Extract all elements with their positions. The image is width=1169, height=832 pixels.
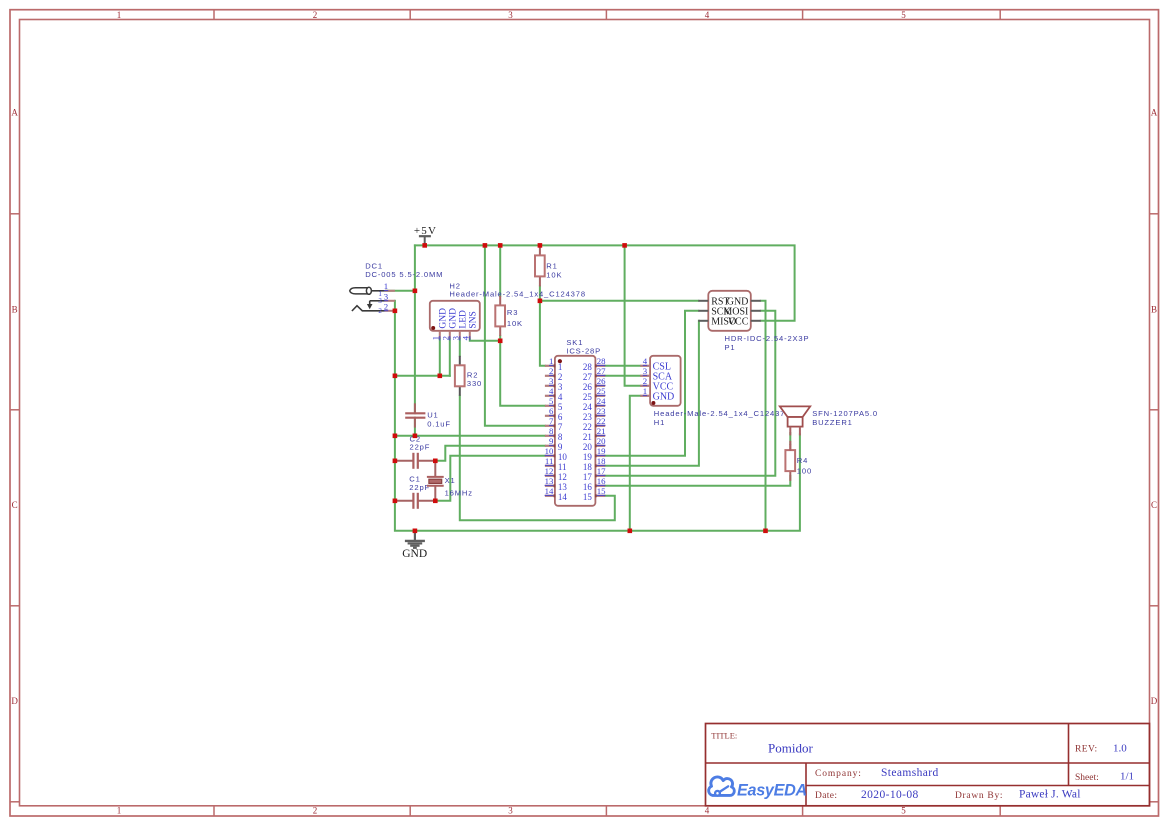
svg-text:Steamshard: Steamshard (881, 767, 939, 779)
title block (706, 724, 1150, 806)
svg-text:1: 1 (430, 336, 440, 340)
header H1 Header-Male-2.54_1x4_C124378 (640, 356, 790, 427)
wire +5V to H1 VCC (625, 245, 641, 385)
wire +5V to R3 top (499, 245, 501, 296)
svg-text:1/1: 1/1 (1120, 771, 1134, 783)
IC socket SK1 ICS-28P (545, 338, 606, 506)
svg-text:6: 6 (549, 406, 554, 416)
svg-text:SFN-1207PA5.0: SFN-1207PA5.0 (812, 409, 878, 418)
resistor R4 100 (785, 441, 812, 481)
svg-text:1: 1 (558, 362, 563, 372)
svg-text:C: C (1151, 500, 1157, 510)
wire R2 bottom to SK1 pin15 (460, 396, 615, 521)
svg-text:12: 12 (545, 466, 554, 476)
svg-text:15: 15 (597, 486, 606, 496)
svg-text:21: 21 (597, 426, 606, 436)
junction dots (393, 243, 768, 533)
svg-text:2: 2 (643, 376, 647, 386)
svg-text:2: 2 (440, 336, 450, 340)
wire H2 GND pins row (395, 375, 450, 377)
svg-text:3: 3 (643, 366, 648, 376)
svg-text:20: 20 (583, 442, 593, 452)
capacitor C1 22pF (395, 475, 435, 509)
svg-text:16: 16 (597, 476, 606, 486)
svg-text:7: 7 (549, 416, 554, 426)
wire P1 GND pin to bottom bus (761, 301, 766, 531)
svg-text:HDR-IDC-2.54-2X3P: HDR-IDC-2.54-2X3P (725, 334, 810, 343)
wire SCK net P1 to SK1 pin19 (605, 311, 698, 456)
svg-text:10: 10 (545, 446, 554, 456)
power flag +5V (414, 225, 437, 246)
wire H1 GND to bottom bus (630, 396, 641, 531)
svg-text:1: 1 (384, 281, 388, 291)
svg-text:GND: GND (653, 392, 675, 403)
svg-text:27: 27 (597, 366, 606, 376)
svg-text:23: 23 (597, 406, 606, 416)
svg-text:10K: 10K (546, 271, 562, 280)
svg-text:26: 26 (583, 382, 593, 392)
svg-text:3: 3 (558, 382, 563, 392)
header H2 Header-Male-2.54_1x4_C124378 (430, 281, 586, 340)
svg-text:DC-005 5.5-2.0MM: DC-005 5.5-2.0MM (365, 270, 443, 279)
svg-text:13: 13 (545, 476, 554, 486)
svg-text:REV:: REV: (1075, 745, 1098, 755)
svg-text:28: 28 (583, 362, 593, 372)
svg-text:1.0: 1.0 (1113, 743, 1127, 755)
wire C2/X1 to SK1 pin9 (435, 446, 545, 461)
wire MISO net P1 to SK1 pin18 (605, 321, 699, 466)
wire R1 bottom to SK1 pin1 (540, 286, 545, 365)
EasyEDA logo (709, 777, 807, 799)
svg-text:3: 3 (549, 376, 554, 386)
wire GND row to SK1 pin8 (395, 435, 545, 437)
svg-text:A: A (1151, 108, 1158, 118)
svg-text:H1: H1 (654, 418, 665, 427)
wire RST net P1 to R1 node (540, 300, 698, 302)
connector DC1 DC-005 barrel jack (350, 261, 444, 315)
svg-text:25: 25 (583, 392, 593, 402)
svg-text:100: 100 (797, 467, 812, 476)
svg-text:18: 18 (583, 462, 593, 472)
svg-text:R1: R1 (546, 261, 557, 270)
svg-text:5: 5 (901, 10, 906, 20)
svg-text:1: 1 (549, 356, 553, 366)
svg-text:15: 15 (583, 492, 593, 502)
svg-text:19: 19 (597, 446, 606, 456)
svg-text:Company:: Company: (815, 769, 862, 779)
svg-text:1: 1 (643, 386, 647, 396)
svg-text:Pomidor: Pomidor (768, 741, 813, 756)
svg-text:10K: 10K (507, 319, 523, 328)
svg-text:R4: R4 (797, 456, 808, 465)
wire C1/X1 to SK1 pin10 (435, 456, 545, 501)
svg-text:8: 8 (558, 432, 563, 442)
wire MOSI net P1 to SK1 pin17 (605, 311, 775, 476)
svg-text:D: D (1151, 696, 1158, 706)
svg-text:10: 10 (558, 452, 568, 462)
wire +5V left drop to U1 top (414, 245, 416, 413)
svg-text:6: 6 (558, 412, 563, 422)
svg-text:22pF: 22pF (409, 483, 430, 492)
svg-text:24: 24 (597, 396, 606, 406)
svg-text:P1: P1 (725, 343, 736, 352)
svg-text:22pF: 22pF (410, 442, 431, 451)
resistor R2 330 (455, 356, 482, 396)
svg-text:TITLE:: TITLE: (711, 730, 737, 740)
svg-text:4: 4 (643, 356, 648, 366)
svg-text:22: 22 (583, 422, 592, 432)
svg-text:U1: U1 (427, 411, 438, 420)
svg-text:GND: GND (402, 548, 427, 560)
svg-text:21: 21 (583, 432, 592, 442)
svg-text:2: 2 (313, 806, 318, 816)
svg-text:26: 26 (597, 376, 606, 386)
svg-text:13: 13 (558, 482, 568, 492)
svg-text:VCC: VCC (728, 317, 749, 328)
svg-text:3: 3 (508, 10, 513, 20)
svg-text:8: 8 (549, 426, 554, 436)
svg-text:22: 22 (597, 416, 606, 426)
svg-text:3: 3 (378, 297, 382, 305)
svg-text:3: 3 (508, 806, 513, 816)
svg-text:4: 4 (558, 392, 563, 402)
svg-text:17: 17 (583, 472, 593, 482)
wire H2 pin3 to R2 (459, 339, 461, 356)
header P1 HDR-IDC-2.54-2X3P (698, 291, 809, 352)
svg-text:A: A (11, 108, 18, 118)
svg-text:C: C (12, 500, 18, 510)
wire DC1 pin3 link (394, 301, 396, 311)
svg-text:B: B (1151, 305, 1157, 315)
svg-text:3: 3 (384, 291, 389, 301)
svg-text:16MHz: 16MHz (445, 488, 473, 497)
svg-text:Drawn By:: Drawn By: (955, 791, 1003, 801)
wire R3 bottom junction (499, 336, 501, 341)
wire SK1 pin27 to H1 SCA (605, 375, 640, 377)
svg-text:R3: R3 (507, 308, 518, 317)
svg-text:24: 24 (583, 402, 593, 412)
svg-text:SK1: SK1 (566, 338, 583, 347)
svg-text:20: 20 (597, 436, 606, 446)
svg-text:EasyEDA: EasyEDA (737, 781, 807, 799)
resistor R3 10K (495, 296, 523, 336)
svg-text:GND: GND (448, 308, 458, 329)
svg-text:DC1: DC1 (365, 261, 383, 270)
svg-text:18: 18 (597, 456, 606, 466)
wire H2 SNS pin4 to R3 node (470, 339, 500, 341)
svg-text:17: 17 (597, 466, 606, 476)
svg-text:4: 4 (549, 386, 554, 396)
svg-text:SNS: SNS (468, 311, 478, 328)
svg-text:2: 2 (558, 372, 563, 382)
svg-text:9: 9 (558, 442, 563, 452)
svg-text:5: 5 (558, 402, 563, 412)
svg-text:2: 2 (384, 301, 388, 311)
resistor R1 10K (535, 245, 562, 286)
wire U1 bottom to GND row (414, 418, 416, 436)
svg-text:2020-10-08: 2020-10-08 (861, 789, 919, 801)
svg-text:16: 16 (583, 482, 593, 492)
svg-text:Sheet:: Sheet: (1075, 773, 1099, 783)
svg-text:1: 1 (117, 10, 122, 20)
svg-text:+5V: +5V (414, 225, 437, 237)
wire H2 pin1 drop (439, 339, 441, 376)
svg-text:12: 12 (558, 472, 567, 482)
svg-text:Date:: Date: (815, 791, 837, 801)
svg-text:19: 19 (583, 452, 593, 462)
wire R3 node to SK1 pin5 (500, 341, 545, 406)
buzzer BUZZER1 SFN-1207PA5.0 (780, 406, 878, 450)
svg-text:11: 11 (558, 462, 567, 472)
svg-text:23: 23 (583, 412, 593, 422)
wire SK1 pin28 to H1 CSL (605, 365, 640, 367)
svg-text:LED: LED (458, 310, 468, 329)
svg-text:5: 5 (549, 396, 554, 406)
svg-text:5: 5 (901, 806, 906, 816)
wire buzzer left lead to R4 top (789, 433, 791, 444)
ground symbol GND (402, 531, 427, 560)
svg-text:B: B (12, 305, 18, 315)
svg-text:27: 27 (583, 372, 593, 382)
svg-text:D: D (11, 696, 18, 706)
svg-text:11: 11 (545, 456, 553, 466)
svg-text:2: 2 (549, 366, 553, 376)
svg-text:GND: GND (438, 308, 448, 329)
svg-text:Header-Male-2.54_1x4_C124378: Header-Male-2.54_1x4_C124378 (449, 289, 586, 298)
wire DC1 pin1 to +5V (386, 290, 415, 292)
svg-text:4: 4 (460, 335, 470, 340)
svg-text:28: 28 (597, 356, 606, 366)
wire +5V to SK1 pin7 (485, 245, 545, 425)
svg-text:ICS-28P: ICS-28P (566, 347, 601, 356)
svg-text:2: 2 (313, 10, 318, 20)
svg-text:14: 14 (545, 486, 554, 496)
svg-text:330: 330 (467, 379, 482, 388)
svg-text:4: 4 (705, 10, 710, 20)
capacitor U1 0.1uF (405, 403, 451, 428)
wire SK1 pin16 to R4 (605, 476, 790, 486)
svg-text:1: 1 (117, 806, 122, 816)
svg-text:4: 4 (705, 806, 710, 816)
svg-text:14: 14 (558, 492, 568, 502)
svg-text:25: 25 (597, 386, 606, 396)
svg-text:BUZZER1: BUZZER1 (812, 418, 853, 427)
wire GND left bus and bottom bus to buzzer (395, 311, 800, 531)
wire H2 pin2 drop (449, 339, 451, 376)
svg-text:X1: X1 (445, 476, 456, 485)
crystal X1 16MHz (427, 461, 473, 501)
svg-text:9: 9 (549, 436, 554, 446)
svg-text:Paweł J. Wal: Paweł J. Wal (1019, 789, 1081, 801)
svg-text:3: 3 (450, 335, 460, 340)
svg-text:2: 2 (378, 307, 382, 315)
svg-text:0.1uF: 0.1uF (427, 420, 451, 429)
capacitor C2 22pF (395, 434, 435, 469)
svg-text:7: 7 (558, 422, 563, 432)
svg-text:Header-Male-2.54_1x4_C124378: Header-Male-2.54_1x4_C124378 (654, 409, 791, 418)
wire +5V rail (415, 245, 795, 320)
